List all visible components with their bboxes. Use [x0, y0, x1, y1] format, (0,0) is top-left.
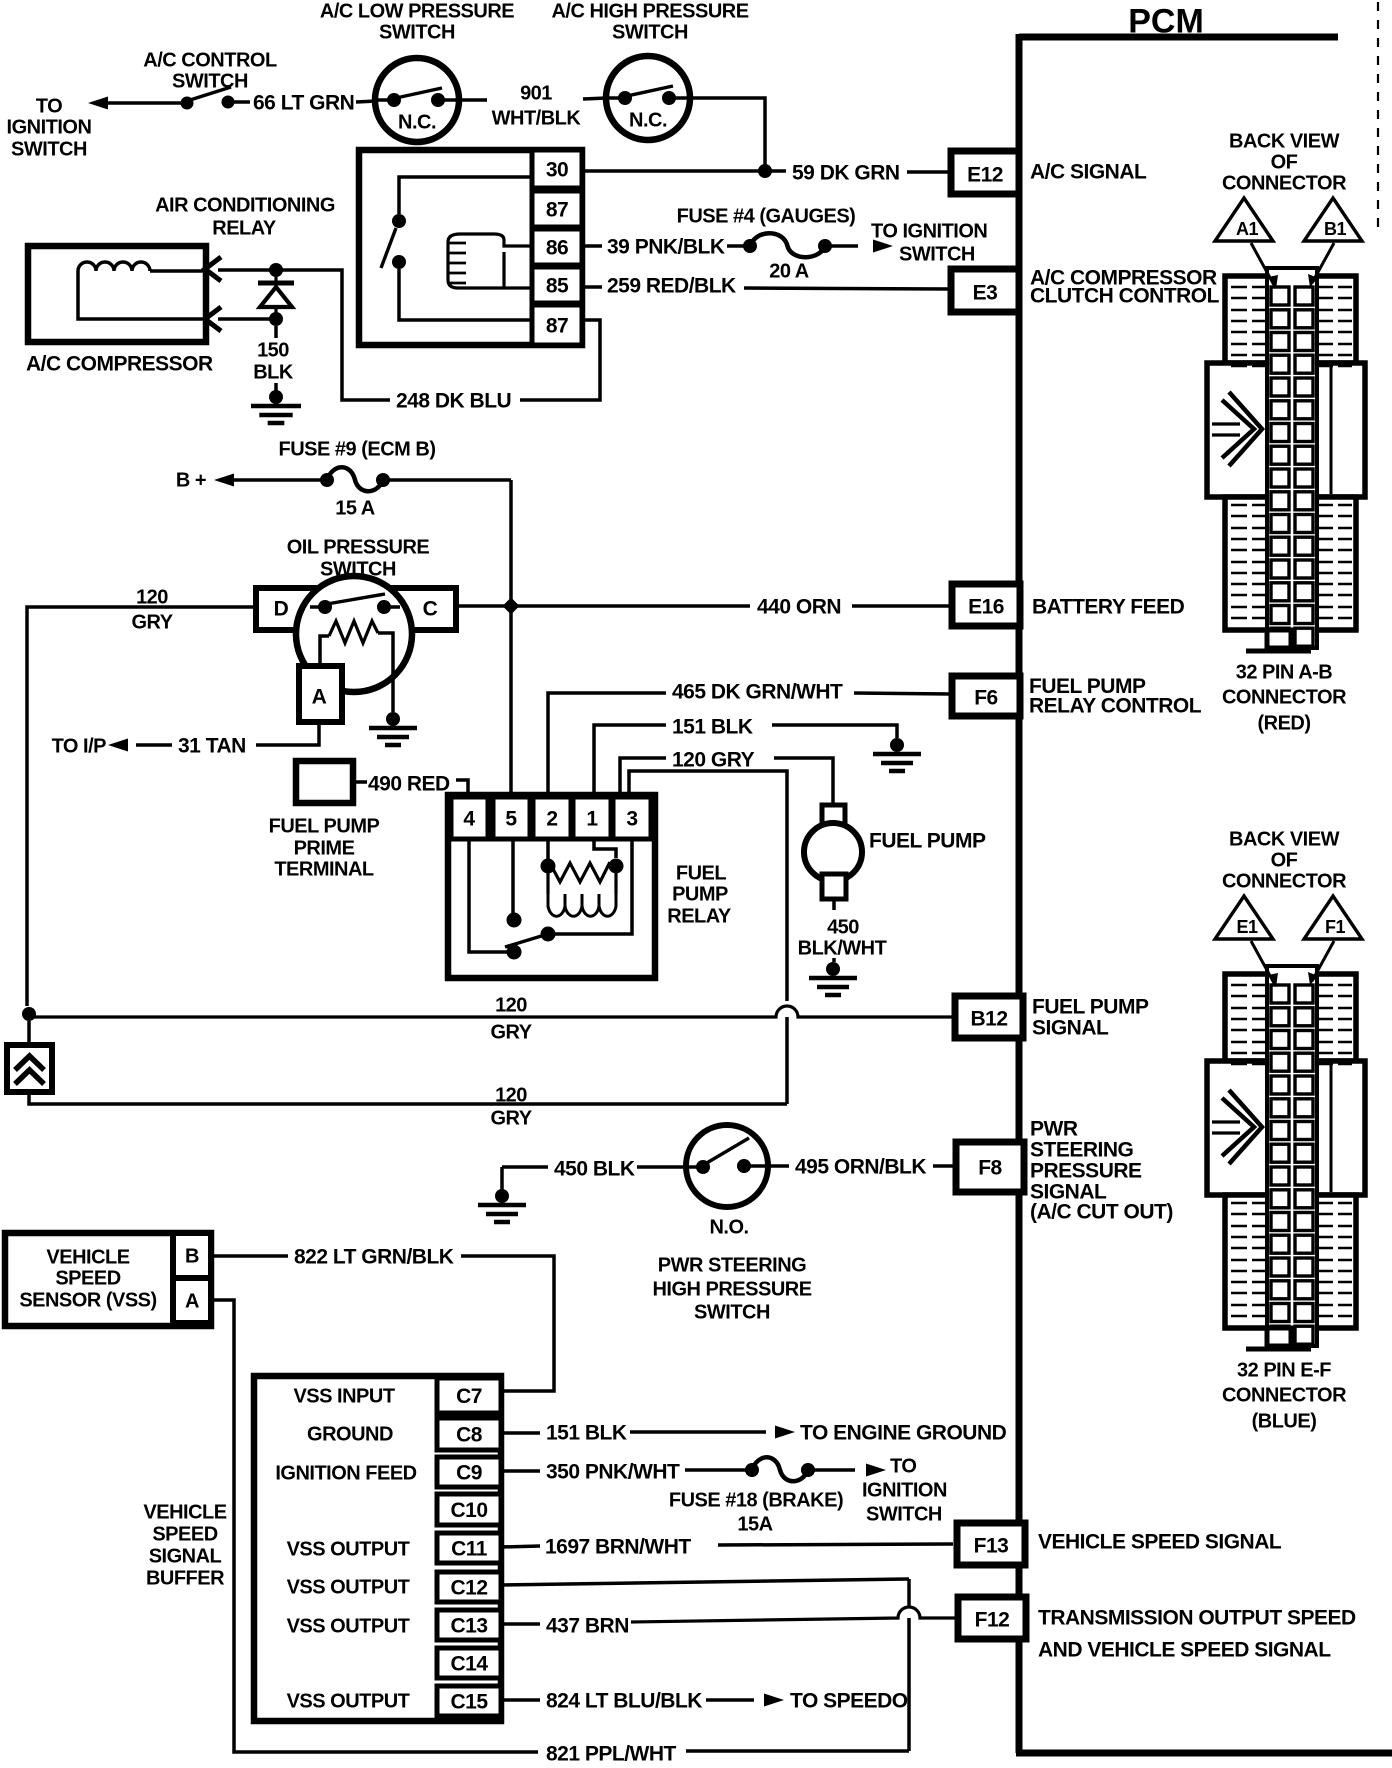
svg-text:450 BLK: 450 BLK [554, 1158, 635, 1181]
relay2 internal nodes [541, 859, 556, 874]
svg-text:120: 120 [495, 995, 527, 1017]
wire 490 RED [353, 780, 367, 784]
wire 120 GRY row to fuel pump [620, 758, 666, 796]
A/C high pressure switch [606, 56, 690, 140]
svg-text:FUSE #18 (BRAKE): FUSE #18 (BRAKE) [669, 1490, 843, 1512]
fuel pump relay pin 3 [613, 797, 651, 839]
svg-text:1: 1 [586, 808, 598, 831]
leader line A1 to pin [1251, 243, 1274, 285]
svg-text:FUEL PUMP: FUEL PUMP [269, 816, 380, 838]
wire: TO IGNITION SWITCH arrow from A/C control switch [88, 97, 108, 110]
buffer pin C14 [437, 1648, 501, 1678]
buffer pin C10 [437, 1494, 501, 1525]
connector art: middle left block with chevrons [1207, 1061, 1268, 1195]
wire 59 DK GRN from relay pin 30 to PCM E12 [582, 169, 786, 173]
triangle callout A1 [1215, 198, 1273, 241]
fuel pump prime terminal box [296, 761, 353, 803]
svg-text:WHT/BLK: WHT/BLK [492, 108, 582, 130]
svg-text:BUFFER: BUFFER [146, 1568, 225, 1590]
leader line B1 to pin [1312, 243, 1334, 283]
svg-text:F1: F1 [1325, 917, 1345, 937]
triangle callout B1 [1304, 198, 1362, 241]
svg-text:VSS OUTPUT: VSS OUTPUT [287, 1539, 410, 1561]
svg-text:15A: 15A [737, 1514, 772, 1536]
svg-text:TO IGNITION: TO IGNITION [871, 221, 987, 243]
svg-text:VSS OUTPUT: VSS OUTPUT [287, 1616, 410, 1638]
svg-text:490 RED: 490 RED [368, 773, 450, 796]
connector art: bottom tab [1267, 630, 1291, 648]
connector art: hatch dashes [1231, 985, 1352, 1327]
connector art: pin strip [1267, 268, 1317, 648]
connector art: middle right block [1316, 1061, 1365, 1195]
node: diamond junction 440 ORN / B+ [509, 600, 513, 797]
svg-text:465 DK GRN/WHT: 465 DK GRN/WHT [672, 681, 843, 704]
wire C12 VSS output riser [501, 1579, 909, 1585]
ground G5 (450 BLK) [495, 1189, 509, 1203]
svg-text:F12: F12 [975, 1609, 1010, 1632]
svg-text:4: 4 [463, 808, 475, 831]
oil pressure switch body [296, 576, 412, 692]
wire 901 WHT/BLK [459, 98, 487, 102]
svg-text:85: 85 [546, 275, 569, 298]
svg-text:(RED): (RED) [1257, 713, 1310, 735]
svg-text:C8: C8 [456, 1424, 483, 1447]
svg-text:CONNECTOR: CONNECTOR [1222, 1385, 1347, 1407]
PCM pin F6 [952, 676, 1020, 716]
wire 31 TAN from A to instrument panel [256, 722, 319, 745]
svg-text:IGNITION FEED: IGNITION FEED [275, 1463, 416, 1485]
fuse F4 20A [743, 239, 757, 253]
wire fuse #9 to oil pressure switch C / pin5 vertical [385, 478, 511, 482]
svg-text:E1: E1 [1236, 917, 1258, 937]
ground G1 (150 BLK) [269, 390, 283, 404]
svg-text:C14: C14 [450, 1653, 488, 1676]
wire 437 BRN to F12 with hop [501, 1622, 540, 1626]
fuel pump relay pin 1 [573, 797, 611, 839]
svg-text:HIGH PRESSURE: HIGH PRESSURE [652, 1279, 811, 1301]
svg-text:TO SPEEDO: TO SPEEDO [790, 1690, 908, 1713]
relay internal: wire switch to pin 87b [399, 269, 532, 320]
node junction top [269, 263, 283, 277]
svg-text:BATTERY FEED: BATTERY FEED [1032, 596, 1185, 619]
fuel pump relay pin 4 [451, 797, 488, 839]
svg-text:BLK: BLK [253, 362, 294, 384]
svg-text:248 DK BLU: 248 DK BLU [396, 390, 511, 413]
wire from high pressure switch down to 59 DK GRN node [690, 98, 765, 172]
connector art: pin strip [1267, 966, 1317, 1346]
svg-text:VSS OUTPUT: VSS OUTPUT [287, 1577, 410, 1599]
relay pin 30 [532, 150, 582, 188]
svg-text:VSS INPUT: VSS INPUT [293, 1386, 394, 1408]
svg-text:A/C HIGH PRESSURE: A/C HIGH PRESSURE [551, 1, 748, 23]
svg-text:VEHICLE: VEHICLE [46, 1247, 129, 1269]
svg-text:SWITCH: SWITCH [320, 559, 396, 581]
connector art: bottom hatched section [1225, 497, 1356, 630]
svg-text:C10: C10 [450, 1499, 487, 1522]
wire 1697 BRN/WHT to F13 [501, 1546, 540, 1547]
compressor terminal arrows [205, 257, 221, 281]
svg-text:30: 30 [546, 159, 568, 182]
svg-text:IGNITION: IGNITION [7, 117, 92, 139]
svg-text:C15: C15 [450, 1691, 488, 1714]
leader line F1 to pin [1312, 941, 1334, 981]
svg-text:SWITCH: SWITCH [694, 1302, 770, 1324]
svg-text:C13: C13 [450, 1615, 487, 1638]
compressor internal wires [150, 269, 203, 273]
svg-text:VSS OUTPUT: VSS OUTPUT [287, 1691, 410, 1713]
svg-text:A/C COMPRESSOR: A/C COMPRESSOR [26, 353, 213, 376]
compressor clutch coil [78, 262, 150, 271]
PCM module outline [1019, 34, 1338, 41]
svg-text:C: C [423, 598, 438, 621]
svg-text:CONNECTOR: CONNECTOR [1222, 173, 1347, 195]
svg-text:PUMP: PUMP [672, 884, 728, 906]
svg-text:E16: E16 [968, 596, 1004, 619]
wire 39 PNK/BLK from relay pin 86 [582, 244, 602, 248]
ground G4 (fuel pump) [826, 962, 840, 976]
svg-text:N.C.: N.C. [629, 110, 667, 132]
fuse F9 15A [320, 473, 334, 487]
svg-text:66 LT GRN: 66 LT GRN [253, 92, 354, 115]
svg-text:32 PIN E-F: 32 PIN E-F [1237, 1360, 1331, 1382]
connector art: hatch dashes [1231, 287, 1352, 629]
svg-text:E12: E12 [967, 164, 1003, 187]
svg-text:495 ORN/BLK: 495 ORN/BLK [795, 1156, 926, 1179]
connector art: middle left block with chevrons [1207, 363, 1268, 497]
svg-text:PCM: PCM [1128, 3, 1204, 41]
vehicle speed sensor box [5, 1233, 211, 1326]
svg-text:CONNECTOR: CONNECTOR [1222, 871, 1347, 893]
wire 465 DK GRN/WHT from F6 to relay pin 2 [548, 693, 666, 796]
fuel pump relay body [448, 795, 655, 978]
wire second 120 GRY run [29, 1092, 787, 1104]
svg-text:N.O.: N.O. [709, 1217, 748, 1239]
svg-text:(A/C CUT OUT): (A/C CUT OUT) [1030, 1201, 1173, 1224]
svg-text:120: 120 [495, 1085, 527, 1107]
wire 821 PPL/WHT from VSS A [211, 1300, 538, 1752]
connector art: pin squares [1271, 287, 1289, 305]
PCM pin E16 [952, 584, 1020, 626]
svg-text:822 LT GRN/BLK: 822 LT GRN/BLK [294, 1246, 454, 1269]
fuel pump relay pin 2 [533, 797, 571, 839]
svg-text:39 PNK/BLK: 39 PNK/BLK [607, 236, 725, 259]
oil pressure switch terminal C [394, 588, 456, 630]
svg-text:5: 5 [505, 808, 517, 831]
wire 259 RED/BLK from relay pin 85 to PCM E3 [582, 285, 602, 289]
svg-text:RELAY: RELAY [212, 218, 277, 240]
relay2 internal: pin2 to coil node [546, 841, 550, 860]
air conditioning relay body [359, 150, 582, 345]
svg-text:86: 86 [546, 237, 568, 260]
connector art: pin squares [1271, 985, 1289, 1003]
PCM pin E3 [951, 269, 1019, 312]
wire compressor to junction nodes [218, 268, 276, 272]
svg-text:VEHICLE: VEHICLE [143, 1502, 226, 1524]
fuel pump relay pin 5 [493, 797, 530, 839]
PCM pin F8 [956, 1142, 1024, 1192]
wire 150 BLK to ground [274, 326, 278, 338]
svg-text:GROUND: GROUND [307, 1424, 393, 1446]
svg-text:824 LT BLU/BLK: 824 LT BLU/BLK [546, 1690, 702, 1713]
buffer pin C11 [437, 1533, 501, 1563]
svg-text:OF: OF [1271, 850, 1298, 872]
triangle callout F1 [1304, 896, 1362, 939]
svg-text:B +: B + [176, 470, 206, 492]
svg-text:BACK VIEW: BACK VIEW [1229, 131, 1340, 153]
leader line E1 to pin [1251, 941, 1274, 983]
svg-text:C9: C9 [456, 1462, 482, 1485]
svg-text:D: D [274, 598, 289, 621]
ground G3 (151 BLK) [890, 738, 904, 752]
svg-text:F6: F6 [974, 687, 998, 710]
svg-text:C7: C7 [456, 1385, 482, 1408]
wire 151 BLK to engine ground [501, 1431, 540, 1435]
connector art: bottom tab [1267, 1328, 1291, 1346]
oil pressure switch terminal D [256, 588, 318, 630]
oil switch contacts [310, 605, 325, 609]
oil switch internal wires [320, 636, 329, 665]
svg-text:PWR STEERING: PWR STEERING [658, 1255, 806, 1277]
svg-text:259 RED/BLK: 259 RED/BLK [607, 275, 736, 298]
svg-text:PRESSURE: PRESSURE [1030, 1160, 1142, 1183]
svg-text:GRY: GRY [490, 1108, 532, 1130]
relay pin 87 [532, 191, 582, 227]
buffer pin C13 [437, 1610, 501, 1640]
svg-text:B: B [185, 1246, 199, 1268]
wire 66 LT GRN [234, 100, 250, 104]
svg-text:OF: OF [1271, 152, 1298, 174]
svg-text:GRY: GRY [490, 1022, 532, 1044]
svg-text:151 BLK: 151 BLK [672, 716, 753, 739]
wire 450 BLK/WHT [832, 899, 836, 910]
diode D1 across clutch coil [258, 281, 294, 286]
wire 495 ORN/BLK to F8 [768, 1164, 789, 1168]
A/C compressor box [28, 246, 206, 342]
svg-text:SWITCH: SWITCH [379, 22, 455, 44]
svg-text:GRY: GRY [131, 612, 173, 634]
wire 822 LT GRN/BLK from VSS B to buffer C7 [211, 1254, 288, 1258]
triangle callout E1 [1215, 896, 1273, 939]
svg-text:CONNECTOR: CONNECTOR [1222, 687, 1347, 709]
svg-text:A: A [312, 686, 327, 709]
relay2 internal resistor [552, 863, 614, 882]
svg-text:SWITCH: SWITCH [172, 71, 248, 93]
svg-text:C11: C11 [451, 1538, 488, 1561]
svg-text:BACK VIEW: BACK VIEW [1229, 829, 1340, 851]
A/C control switch S1 [181, 97, 194, 110]
svg-text:821 PPL/WHT: 821 PPL/WHT [546, 1743, 677, 1766]
fuse F18 15A [745, 1463, 759, 1477]
connector art: top hatched section [1225, 974, 1356, 1061]
wire 248 DK BLU from junction to relay pin 87b [276, 270, 390, 400]
PCM pin F12 [958, 1597, 1026, 1639]
svg-text:AIR CONDITIONING: AIR CONDITIONING [155, 195, 335, 217]
wire 350 PNK/WHT ignition feed [501, 1469, 540, 1473]
svg-text:N.C.: N.C. [398, 112, 436, 134]
svg-text:SIGNAL: SIGNAL [1032, 1017, 1109, 1040]
svg-text:IGNITION: IGNITION [862, 1480, 947, 1502]
wire 151 BLK row to ground [594, 725, 666, 796]
relay2 internal: pin1 step to right node [594, 841, 616, 858]
svg-text:3: 3 [626, 808, 637, 831]
svg-text:FUSE #9 (ECM B): FUSE #9 (ECM B) [279, 439, 436, 461]
svg-text:FUEL PUMP: FUEL PUMP [869, 830, 986, 853]
connector art: bottom hatched section [1225, 1195, 1356, 1328]
svg-text:F13: F13 [974, 1535, 1009, 1558]
buffer pin C12 [437, 1572, 501, 1602]
svg-text:440 ORN: 440 ORN [757, 596, 841, 619]
svg-text:SIGNAL: SIGNAL [149, 1546, 222, 1568]
svg-text:TO ENGINE GROUND: TO ENGINE GROUND [800, 1422, 1007, 1445]
svg-text:FUEL PUMP: FUEL PUMP [1032, 996, 1149, 1019]
svg-text:BLK/WHT: BLK/WHT [798, 938, 887, 960]
svg-text:2: 2 [546, 808, 557, 831]
relay internal switch [392, 214, 406, 228]
oil switch sender resistor [329, 621, 378, 643]
vehicle speed signal buffer box [254, 1376, 501, 1721]
svg-text:31 TAN: 31 TAN [178, 735, 246, 758]
svg-text:PWR: PWR [1030, 1118, 1078, 1141]
svg-text:TO: TO [36, 96, 62, 118]
svg-text:87: 87 [546, 315, 568, 338]
svg-text:151 BLK: 151 BLK [546, 1422, 627, 1445]
svg-text:1697 BRN/WHT: 1697 BRN/WHT [545, 1536, 691, 1559]
wire 824 LT BLU/BLK to speedo [501, 1698, 540, 1702]
PCM pin F13 [957, 1523, 1025, 1565]
svg-text:350 PNK/WHT: 350 PNK/WHT [546, 1461, 680, 1484]
pwr steering high pressure switch [502, 1165, 548, 1169]
relay pin 85 [532, 267, 582, 303]
connector art: middle right block [1316, 363, 1365, 497]
relay internal: wire pin30 to switch contact [399, 177, 532, 214]
buffer pin C9 [437, 1457, 501, 1487]
svg-text:20 A: 20 A [769, 261, 809, 283]
svg-text:SWITCH: SWITCH [11, 139, 87, 161]
svg-text:437 BRN: 437 BRN [546, 1615, 629, 1638]
svg-text:B12: B12 [970, 1008, 1007, 1031]
buffer pin C7 [437, 1378, 501, 1413]
svg-text:STEERING: STEERING [1030, 1139, 1134, 1162]
wire 120 GRY fuel pump signal riser [629, 771, 787, 1001]
svg-text:SWITCH: SWITCH [612, 22, 688, 44]
svg-text:CLUTCH CONTROL: CLUTCH CONTROL [1030, 285, 1220, 308]
buffer pin C8 [437, 1418, 501, 1450]
svg-text:A/C SIGNAL: A/C SIGNAL [1030, 161, 1147, 184]
svg-text:450: 450 [827, 917, 859, 939]
oil pressure switch terminal A [299, 666, 342, 722]
svg-text:PRIME: PRIME [294, 838, 355, 860]
svg-text:C12: C12 [450, 1577, 487, 1600]
svg-text:59 DK GRN: 59 DK GRN [792, 162, 900, 185]
wire 120 GRY from D down left side [27, 607, 256, 1006]
off-page connector symbol (double chevron) [27, 1021, 31, 1045]
ground G2 (oil switch) [386, 712, 400, 726]
svg-text:F8: F8 [978, 1157, 1002, 1180]
node: junction 59 DK GRN [758, 164, 772, 178]
relay2 internal: switch to pin 3 [550, 841, 632, 934]
svg-text:B1: B1 [1324, 219, 1346, 239]
PCM pin E12 [951, 151, 1019, 194]
connector art: top hatched section [1225, 276, 1356, 363]
svg-text:SWITCH: SWITCH [899, 244, 975, 266]
relay internal coil [460, 234, 532, 246]
svg-text:SPEED: SPEED [55, 1268, 120, 1290]
relay2 internal coil [546, 866, 549, 894]
svg-text:TRANSMISSION OUTPUT SPEED: TRANSMISSION OUTPUT SPEED [1038, 1607, 1356, 1630]
PCM pin B12 [955, 996, 1023, 1038]
svg-text:FUEL: FUEL [676, 863, 727, 885]
svg-text:A1: A1 [1236, 219, 1258, 239]
svg-text:15 A: 15 A [335, 498, 375, 520]
wire 440 ORN row [456, 604, 750, 608]
svg-text:FUSE #4 (GAUGES): FUSE #4 (GAUGES) [677, 206, 856, 228]
svg-text:E3: E3 [973, 282, 998, 305]
PCM right edge dashes [1377, 2, 1379, 232]
A/C low pressure switch [375, 58, 459, 142]
svg-text:OIL PRESSURE: OIL PRESSURE [287, 537, 430, 559]
fuel pump motor [822, 805, 845, 827]
svg-text:A: A [185, 1291, 199, 1313]
buffer pin C15 [437, 1686, 501, 1716]
svg-text:32 PIN A-B: 32 PIN A-B [1236, 662, 1333, 684]
svg-text:RELAY CONTROL: RELAY CONTROL [1029, 695, 1202, 718]
wire 120 GRY to PCM B12 with hop [22, 1007, 36, 1021]
svg-text:VEHICLE SPEED SIGNAL: VEHICLE SPEED SIGNAL [1038, 1531, 1282, 1554]
svg-text:SWITCH: SWITCH [866, 1504, 942, 1526]
svg-text:AND VEHICLE SPEED SIGNAL: AND VEHICLE SPEED SIGNAL [1038, 1639, 1331, 1662]
relay pin 87b [532, 305, 582, 345]
svg-text:87: 87 [546, 199, 568, 222]
svg-text:901: 901 [520, 83, 552, 105]
svg-text:150: 150 [257, 340, 289, 362]
svg-text:120: 120 [136, 587, 168, 609]
VSS pin A [173, 1278, 211, 1323]
node junction bottom [269, 312, 283, 326]
svg-text:SENSOR (VSS): SENSOR (VSS) [19, 1290, 156, 1312]
relay2 internal switch [469, 841, 507, 952]
svg-text:SPEED: SPEED [152, 1524, 217, 1546]
svg-text:A/C CONTROL: A/C CONTROL [143, 50, 277, 72]
wire B+ feed with fuse #9 [214, 474, 234, 487]
svg-text:A/C LOW PRESSURE: A/C LOW PRESSURE [320, 1, 514, 23]
svg-text:RELAY: RELAY [667, 906, 732, 928]
relay pin 86 [532, 229, 582, 265]
svg-text:TO I/P: TO I/P [52, 736, 107, 758]
svg-text:TERMINAL: TERMINAL [274, 859, 374, 881]
VSS pin B [173, 1233, 211, 1278]
svg-text:(BLUE): (BLUE) [1252, 1411, 1317, 1433]
svg-text:TO: TO [890, 1456, 916, 1478]
svg-text:120 GRY: 120 GRY [672, 749, 755, 772]
